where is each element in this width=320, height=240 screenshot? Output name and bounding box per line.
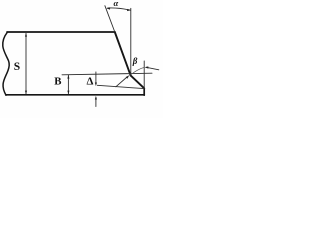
wire: lower bevel edge (angle beta) <box>131 75 145 88</box>
svg-text:S: S <box>14 61 20 73</box>
arrowhead delta upper (points down at extension line) <box>95 83 97 87</box>
wire: vertical extension of root face <box>143 61 145 88</box>
arrowhead beta right (points left at vertical line) <box>145 66 149 68</box>
wire: root face vertical <box>143 88 145 95</box>
arrowhead delta lower (points up at bottom edge) <box>95 96 97 100</box>
arrowhead beta left outside (points up-right at bevel vertex) <box>126 75 130 79</box>
wire: beta dimension arc <box>131 68 144 75</box>
wire: plate top edge <box>7 31 115 33</box>
svg-text:Δ: Δ <box>86 75 93 87</box>
wire: beta right outside arrow shaft <box>146 67 159 70</box>
wire: B dimension line <box>67 75 69 94</box>
wire: wavy break line left edge <box>3 32 10 95</box>
wire: alpha dimension arc <box>108 8 131 10</box>
arrowhead alpha right <box>127 9 131 11</box>
wire: horizontal extension line from bevel vertex <box>62 73 152 75</box>
arrowhead B bottom <box>67 91 69 95</box>
wire: thin extension of bevel above plate <box>105 6 115 32</box>
wire: beta left outside arrow shaft <box>116 77 127 86</box>
arrowhead S top <box>25 33 27 37</box>
wire: vertical reference line through bevel vertex <box>130 8 132 75</box>
arrowhead B top <box>67 75 69 79</box>
svg-text:α: α <box>114 0 119 8</box>
wire: delta lower arrow shaft <box>95 98 97 107</box>
svg-text:β: β <box>132 56 138 66</box>
wire: upper bevel edge (angle alpha) <box>115 32 131 75</box>
svg-text:B: B <box>54 76 61 88</box>
arrowhead S bottom <box>25 91 27 95</box>
arrowhead alpha left <box>106 7 110 9</box>
wire: plate bottom edge <box>6 94 144 96</box>
wire: S dimension line <box>25 34 27 94</box>
wire: horizontal extension line from root face corner <box>97 85 144 88</box>
wire: delta upper arrow shaft <box>95 72 97 84</box>
